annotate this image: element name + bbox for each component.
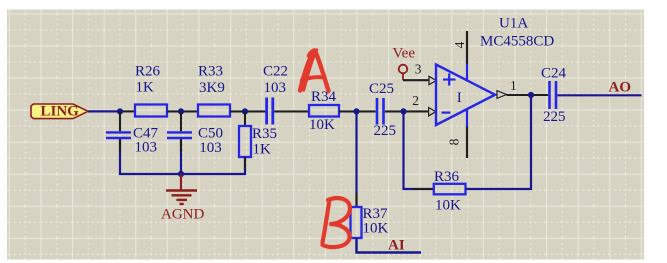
svg-text:10K: 10K [435, 198, 461, 214]
wire LING to node1 [88, 110, 121, 112]
ground AGND [166, 174, 197, 204]
feedback wire R36 to output node [466, 95, 532, 189]
wire R33 to node3 [230, 110, 265, 112]
junction node2 [178, 108, 184, 114]
svg-text:R36: R36 [434, 169, 460, 185]
junction node5 [400, 108, 406, 114]
resistor R35 [239, 126, 251, 157]
svg-text:103: 103 [135, 140, 158, 156]
svg-text:C25: C25 [369, 81, 394, 97]
resistor R35 pin top [244, 111, 246, 126]
wire R26 to node2 [167, 110, 198, 112]
svg-text:8: 8 [447, 138, 462, 145]
svg-text:R33: R33 [198, 64, 223, 80]
op-amp U1A [436, 65, 495, 126]
capacitor C47 pin top [119, 111, 121, 131]
junction output node [528, 92, 534, 98]
capacitor C25 [377, 98, 384, 125]
wire node1 to R26 pin [121, 110, 135, 112]
red annotation A [300, 50, 329, 91]
pin 1 output arrow [497, 91, 507, 99]
opamp minus sign [442, 111, 451, 113]
opamp pin 8 [466, 109, 468, 158]
wire R37 to AI [357, 238, 422, 253]
junction node1 [117, 108, 123, 114]
capacitor C22 [267, 98, 273, 125]
wire C24 to AO [557, 94, 641, 96]
opamp plus sign [443, 73, 456, 85]
svg-text:10K: 10K [363, 221, 389, 237]
svg-text:C22: C22 [263, 64, 288, 80]
svg-text:103: 103 [264, 80, 287, 96]
svg-text:R35: R35 [252, 126, 277, 142]
junction node4 [353, 108, 359, 114]
power port Vee [399, 65, 408, 81]
bottom rail wire [119, 173, 246, 175]
svg-text:3: 3 [415, 62, 422, 77]
svg-text:103: 103 [199, 140, 222, 156]
svg-text:225: 225 [543, 109, 566, 125]
svg-text:1K: 1K [253, 142, 272, 158]
resistor R37 [351, 207, 362, 238]
capacitor C50 pin top [180, 111, 182, 131]
R36 pin stubs [413, 188, 434, 190]
svg-text:3K9: 3K9 [199, 80, 225, 96]
wire R35 to bottom rail [244, 157, 246, 175]
svg-text:2: 2 [412, 93, 419, 108]
svg-text:AO: AO [609, 80, 632, 96]
capacitor C50 [167, 132, 192, 138]
pin 1 wire [507, 94, 549, 96]
svg-text:225: 225 [374, 123, 397, 139]
capacitor C47 [106, 132, 131, 138]
junction bottom rail / AGND tap [178, 171, 184, 177]
svg-text:4: 4 [452, 41, 467, 48]
resistor R34 [309, 105, 339, 117]
svg-text:LING: LING [41, 104, 80, 120]
wire C25 to node5 / opamp pin 2 [385, 110, 429, 112]
wire C22 to R34 [274, 110, 309, 112]
wire C50 to bottom rail [180, 139, 182, 175]
svg-text:10K: 10K [309, 117, 335, 133]
R37 pin stubs [355, 193, 357, 207]
svg-text:U1A: U1A [499, 16, 528, 32]
svg-text:1: 1 [510, 78, 517, 93]
port LING [31, 104, 88, 120]
opamp pin 3 wire [403, 79, 429, 81]
svg-text:AGND: AGND [161, 207, 204, 223]
svg-text:I: I [457, 90, 462, 106]
capacitor C24 [550, 81, 557, 109]
svg-text:C24: C24 [541, 66, 567, 82]
red annotation B [323, 198, 351, 247]
svg-text:R26: R26 [135, 64, 161, 80]
opamp pin 4 [466, 31, 468, 81]
svg-text:AI: AI [388, 238, 405, 254]
svg-text:MC4558CD: MC4558CD [480, 34, 554, 50]
wire C47 to bottom rail [119, 139, 121, 175]
svg-text:Vee: Vee [393, 46, 416, 62]
feedback wire node5 to R36 [404, 111, 434, 189]
pin 2 arrow [429, 108, 436, 116]
resistor R26 [135, 105, 167, 117]
pin 3 arrow [429, 76, 436, 84]
wire node4 to R37 [355, 111, 357, 207]
wire R34 to node4 [339, 110, 376, 112]
resistor R36 [434, 184, 466, 195]
svg-text:R34: R34 [311, 89, 337, 105]
resistor R33 [198, 105, 230, 117]
junction node3 [242, 108, 248, 114]
svg-text:1K: 1K [136, 80, 155, 96]
